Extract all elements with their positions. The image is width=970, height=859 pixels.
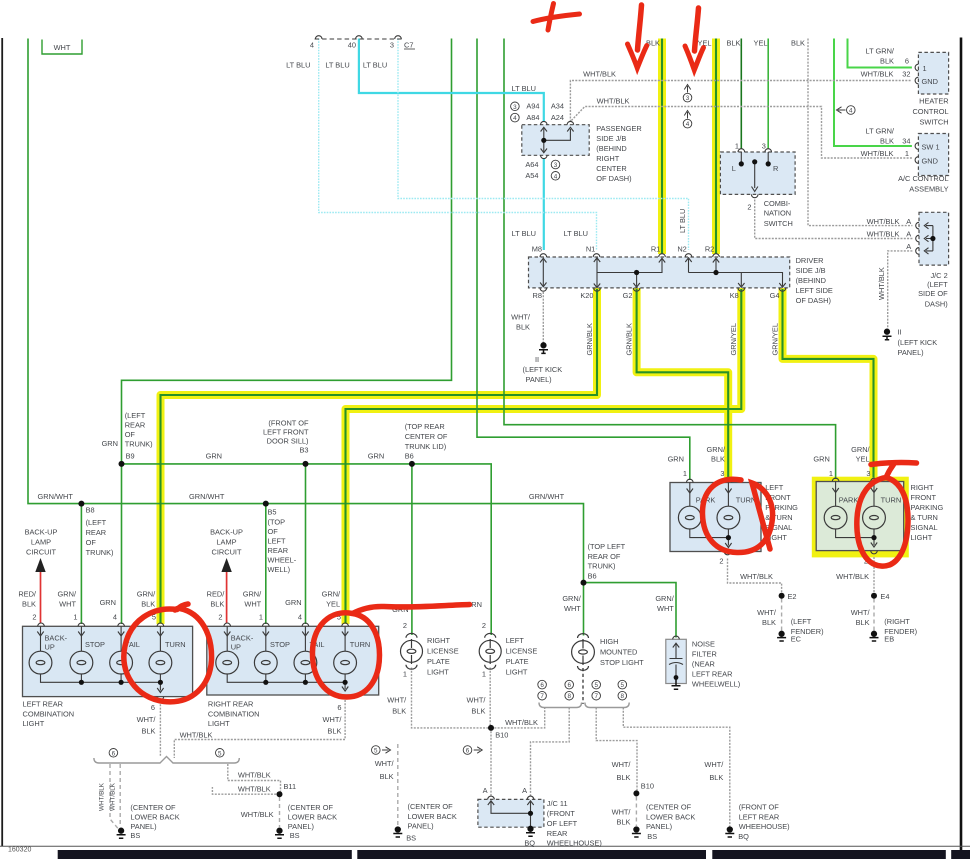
svg-text:3: 3 [866, 469, 870, 478]
svg-text:BLK: BLK [711, 455, 725, 464]
svg-text:1: 1 [482, 670, 486, 679]
svg-text:A24: A24 [551, 113, 564, 122]
svg-text:LT BLU: LT BLU [678, 209, 687, 233]
right rear TAIL bulb [294, 651, 317, 674]
combination switch pin 2 arc (bottom) [751, 194, 758, 197]
svg-text:A94: A94 [526, 102, 539, 111]
svg-text:LEFT SIDE: LEFT SIDE [796, 286, 833, 295]
svg-text:BLK: BLK [856, 618, 870, 627]
svg-text:6: 6 [540, 682, 544, 689]
left rear BACK-UP bulb [29, 651, 52, 674]
svg-text:3: 3 [762, 142, 766, 151]
svg-text:3: 3 [390, 41, 394, 50]
combination switch pin 1 arc [738, 149, 745, 152]
svg-text:OF: OF [125, 430, 136, 439]
arrowhead of left back-up circuit arrow [35, 558, 45, 572]
svg-text:(TOP LEFT: (TOP LEFT [588, 542, 626, 551]
right front TURN bulb [863, 506, 886, 529]
svg-text:5: 5 [374, 748, 378, 755]
svg-text:6: 6 [466, 748, 470, 755]
svg-text:LIGHT: LIGHT [427, 667, 449, 676]
svg-text:5: 5 [594, 682, 598, 689]
svg-text:2: 2 [719, 557, 723, 566]
right front parking internal arrows [832, 488, 877, 547]
arrowhead of right back-up circuit arrow [221, 558, 231, 572]
svg-text:CIRCUIT: CIRCUIT [26, 548, 56, 557]
red arrow 2 (right turn feed) [695, 8, 699, 51]
left front parking pin 2 arc (bottom) [724, 552, 731, 555]
driver J/B pin N2 arc [685, 254, 692, 257]
wire WHT/BLK B10 to bracket circuit 6 [491, 708, 545, 728]
svg-text:4: 4 [113, 613, 117, 622]
svg-text:COMBINATION: COMBINATION [208, 709, 260, 718]
svg-text:& TURN: & TURN [911, 513, 938, 522]
svg-text:GND: GND [922, 157, 938, 166]
svg-text:LT BLU: LT BLU [286, 61, 310, 70]
svg-text:WHT/BLK: WHT/BLK [180, 730, 213, 739]
heater control switch box [918, 52, 948, 94]
svg-text:4: 4 [849, 108, 853, 115]
svg-text:BACK-UP: BACK-UP [25, 528, 58, 537]
svg-text:BLK: BLK [327, 727, 341, 736]
svg-text:LT BLU: LT BLU [325, 61, 349, 70]
splice B6 (trunk lid) [409, 461, 415, 467]
svg-text:A54: A54 [525, 171, 538, 180]
svg-text:SIGNAL: SIGNAL [911, 523, 938, 532]
high mounted stop light dashed drop to splice brackets [582, 668, 584, 704]
noise filter internal lead and arrow [673, 643, 679, 659]
wire GRN/WHT: B5 drop to right rear STOP [265, 504, 267, 624]
svg-text:(FRONT OF: (FRONT OF [739, 803, 780, 812]
red circle around left front TURN with tail [702, 479, 772, 552]
driver J/B pin N1 arc [593, 254, 600, 257]
svg-text:B5: B5 [268, 508, 277, 517]
passenger J/B pin A64/A54 arc (bottom) [541, 155, 548, 158]
svg-text:7: 7 [594, 693, 598, 700]
svg-text:PANEL): PANEL) [898, 348, 924, 357]
svg-text:E4: E4 [880, 592, 889, 601]
left front parking pin 1 arc [687, 479, 694, 482]
left front parking internal arrows [687, 489, 732, 548]
wire BLK top feed to J/C 2 pin A [808, 39, 912, 226]
passenger J/B internal arrow down left [541, 149, 547, 153]
left front TURN bulb [717, 506, 740, 529]
high mounted stop light connector arcs [578, 634, 589, 671]
svg-text:N2: N2 [677, 245, 686, 254]
passenger J/B internal arrow up right [567, 127, 573, 131]
left rear internal leads [41, 626, 161, 690]
svg-text:TURN: TURN [350, 640, 371, 649]
svg-text:N1: N1 [586, 245, 595, 254]
svg-text:LEFT: LEFT [506, 636, 525, 645]
svg-text:A: A [906, 217, 911, 226]
svg-text:WHT/BLK: WHT/BLK [597, 97, 630, 106]
core of highlighted wire into J/B R1 [661, 39, 663, 254]
wire GRN: feed to right front PARK pin 1 [504, 39, 836, 480]
driver J/B pin R2 arc [713, 254, 720, 257]
J/C 2 internal arrows [924, 222, 928, 254]
svg-text:1: 1 [403, 670, 407, 679]
svg-text:BLK: BLK [392, 707, 406, 716]
wire WHT/BLK left license plate light to B10 [489, 668, 491, 728]
circled 7 8 7 8 row above HMSL brackets [538, 691, 547, 700]
wire WHT/BLK rear lamps splice jumper [228, 764, 281, 794]
circuit 4 left arrow and circled 4 near A/C [837, 106, 856, 115]
svg-text:SW 1: SW 1 [922, 143, 940, 152]
driver J/B internal arrows M8/R8 [540, 258, 546, 286]
svg-text:OF: OF [268, 527, 279, 536]
svg-text:WHT/: WHT/ [137, 715, 157, 724]
core of G4 GRN/YEL wire [783, 289, 874, 478]
svg-text:(TOP REAR: (TOP REAR [405, 422, 445, 431]
svg-text:B10: B10 [641, 782, 654, 791]
left license plate bulb [479, 640, 501, 662]
svg-text:WHT/: WHT/ [511, 313, 531, 322]
left rear pin 5 arc [157, 623, 164, 626]
svg-text:WHT/BLK: WHT/BLK [99, 782, 106, 811]
noise filter lower lead [675, 665, 677, 677]
svg-text:OF LEFT: OF LEFT [547, 819, 578, 828]
svg-text:8: 8 [621, 693, 625, 700]
wire GRN: top feed down to y380, left to x121.5, down through B9 to left rear TAIL [122, 39, 452, 625]
svg-text:EB: EB [884, 635, 894, 644]
left rear pin 2 arc [38, 623, 45, 626]
svg-text:LT BLU: LT BLU [564, 229, 588, 238]
splice B11 [277, 791, 283, 797]
ground BS (center of lower back panel, circuit 6) [117, 828, 126, 838]
bracket bus for rear combination lamp grounds [94, 757, 239, 764]
J/C 2 pin A arc (top) [916, 222, 919, 229]
svg-text:REAR: REAR [547, 829, 568, 838]
svg-text:SIDE J/B: SIDE J/B [796, 266, 826, 275]
svg-text:PLATE: PLATE [427, 657, 450, 666]
svg-text:TRUNK): TRUNK) [86, 548, 114, 557]
svg-text:4: 4 [686, 121, 690, 128]
right front parking pin 1 arc [832, 478, 839, 481]
svg-text:A: A [483, 786, 488, 795]
combination switch contact dot R [766, 161, 771, 166]
svg-text:(FRONT OF: (FRONT OF [268, 419, 309, 428]
svg-text:(CENTER OF: (CENTER OF [408, 802, 454, 811]
svg-text:BLK: BLK [471, 707, 485, 716]
svg-text:GRN: GRN [813, 455, 829, 464]
svg-text:2: 2 [32, 613, 36, 622]
svg-text:OF: OF [86, 538, 97, 547]
svg-text:(LEFT: (LEFT [927, 280, 948, 289]
svg-text:BQ: BQ [524, 838, 535, 847]
svg-text:1: 1 [923, 64, 927, 73]
svg-text:PANEL): PANEL) [526, 375, 552, 384]
svg-text:A: A [906, 242, 911, 251]
svg-text:YEL: YEL [326, 600, 340, 609]
highlight: left-turn feed wire into R1 [658, 39, 666, 255]
left frame border [1, 38, 3, 846]
svg-text:GRN/YEL: GRN/YEL [770, 323, 779, 355]
svg-text:BS: BS [406, 834, 416, 843]
svg-text:C7: C7 [404, 41, 413, 50]
combination switch pin 3 arc [765, 149, 772, 152]
A/C pin 34 arc [915, 143, 918, 150]
left front parking pin 3 arc [725, 479, 732, 482]
svg-text:NOISE: NOISE [692, 639, 715, 648]
svg-text:BACK-: BACK- [45, 634, 68, 643]
svg-text:WHT/BLK: WHT/BLK [110, 782, 117, 811]
svg-text:BLK: BLK [727, 39, 741, 48]
svg-text:3: 3 [554, 162, 558, 169]
svg-text:BLK: BLK [880, 57, 894, 66]
svg-text:WHT/BLK: WHT/BLK [241, 810, 274, 819]
svg-text:(LEFT: (LEFT [125, 411, 146, 420]
svg-text:A: A [522, 786, 527, 795]
ground BS (center of lower back panel, circuit 5 stub) [393, 827, 402, 837]
svg-text:UP: UP [45, 643, 55, 652]
svg-text:(CENTER OF: (CENTER OF [130, 803, 176, 812]
svg-text:3: 3 [513, 104, 517, 111]
right front parking internal leads [836, 482, 874, 546]
wire LT BLU C7-3 to driver J/B N2 [398, 39, 689, 251]
svg-text:A34: A34 [551, 102, 564, 111]
left front parking light box [670, 483, 761, 552]
circuit 3 branch arrow and circled 3 [683, 85, 692, 103]
svg-text:1: 1 [735, 142, 739, 151]
high mounted stop light lead stubs [582, 639, 584, 665]
highlight: G2 GRN/BLK wire to left front TURN [637, 288, 729, 478]
ground BQ (front of left rear wheelhouse) [725, 827, 734, 837]
svg-text:DRIVER: DRIVER [796, 256, 824, 265]
heater pin 32 arc [915, 77, 918, 84]
svg-text:(CENTER OF: (CENTER OF [646, 803, 692, 812]
svg-text:BLK: BLK [22, 600, 36, 609]
svg-text:PANEL): PANEL) [646, 822, 672, 831]
right rear pin 4 arc [302, 623, 309, 626]
wire WHT/BLK left rear combination pin 6 to splice bracket [159, 701, 161, 757]
svg-text:TURN: TURN [165, 640, 186, 649]
svg-text:FILTER: FILTER [692, 649, 717, 658]
svg-text:WHT/BLK: WHT/BLK [861, 149, 894, 158]
svg-text:DASH): DASH) [925, 299, 948, 308]
svg-text:BLK: BLK [880, 137, 894, 146]
svg-text:PARKING: PARKING [911, 503, 944, 512]
passenger side J/B box [522, 125, 589, 156]
svg-text:GND: GND [922, 77, 938, 86]
left rear TAIL bulb [110, 651, 133, 674]
ground II (left kick panel, from R8) [539, 343, 548, 354]
svg-text:LIGHT: LIGHT [911, 533, 933, 542]
svg-text:1: 1 [683, 469, 687, 478]
svg-text:NATION: NATION [764, 209, 791, 218]
splice B10 (license lights) [488, 725, 494, 731]
svg-text:WHT/: WHT/ [387, 696, 407, 705]
svg-text:RED/: RED/ [207, 590, 226, 599]
driver J/B internal arrows N1/R1/K20/G2 [594, 258, 665, 288]
svg-text:B6: B6 [588, 572, 597, 581]
svg-text:TURN: TURN [881, 495, 902, 504]
passenger J/B pin A84 arc (top) [541, 121, 548, 124]
svg-text:(BEHIND: (BEHIND [796, 276, 826, 285]
svg-text:M8: M8 [532, 245, 542, 254]
svg-text:E2: E2 [788, 592, 797, 601]
noise filter capacitor plates [669, 659, 683, 665]
driver J/B pin G4 arc [779, 288, 786, 291]
svg-text:A64: A64 [525, 160, 538, 169]
svg-text:WHT/: WHT/ [704, 760, 724, 769]
svg-text:WHT/BLK: WHT/BLK [836, 572, 869, 581]
wire WHT/BLK right front parking pin 2 to E4 [873, 557, 875, 593]
combination switch wiper arrow [752, 187, 758, 192]
svg-text:EC: EC [791, 635, 802, 644]
svg-text:WHEEL-: WHEEL- [268, 556, 297, 565]
svg-text:1: 1 [259, 613, 263, 622]
WHT stub box top left [42, 40, 82, 55]
svg-text:(LEFT: (LEFT [86, 518, 107, 527]
svg-text:GRN/YEL: GRN/YEL [729, 323, 738, 355]
right rear internal leads [227, 626, 345, 689]
connector C7 pin 40 arc [356, 36, 363, 39]
right rear combination light box [207, 626, 379, 695]
svg-text:PLATE: PLATE [506, 657, 529, 666]
svg-text:COMBI-: COMBI- [764, 199, 791, 208]
right rear TURN bulb [334, 651, 357, 674]
right front PARK bulb [824, 506, 847, 529]
svg-text:(NEAR: (NEAR [692, 659, 715, 668]
wire BLK (dark green) into combination switch pin 1 [740, 39, 742, 149]
splice B10 (lower back panel) [633, 790, 639, 796]
svg-text:4: 4 [298, 613, 302, 622]
wire LT BLU passenger J/B A64 down to driver J/B M8 [543, 159, 545, 250]
svg-text:5: 5 [621, 682, 625, 689]
lead circuit 6 to ground BS (double wire, left) [110, 764, 119, 829]
wire RED/BLK into left rear BACK-UP [40, 570, 42, 623]
splice E2 [779, 593, 785, 599]
lead E2 to ground EC [781, 599, 783, 632]
svg-text:BLK: BLK [617, 773, 631, 782]
svg-text:LIGHT: LIGHT [506, 667, 528, 676]
svg-text:LOWER BACK: LOWER BACK [646, 812, 695, 821]
svg-text:4: 4 [554, 173, 558, 180]
svg-text:REAR: REAR [268, 546, 289, 555]
svg-text:WHT: WHT [244, 600, 261, 609]
svg-text:LOWER BACK: LOWER BACK [288, 813, 337, 822]
svg-text:A/C CONTROL: A/C CONTROL [898, 174, 949, 183]
wire WHT/BLK bracket circuit 5 to splice B10 (lower back panel) [596, 708, 637, 791]
wire GRN/WHT: B6 branch to noise filter [584, 583, 677, 638]
svg-text:STOP: STOP [85, 640, 105, 649]
right rear bus splice dots [263, 680, 268, 685]
wire WHT/BLK circuit 4 to A/C GND 1 [571, 107, 912, 159]
svg-text:LT BLU: LT BLU [363, 61, 387, 70]
right rear BACK-UP bulb [216, 651, 239, 674]
driver J/B pin G2 arc [633, 288, 640, 291]
svg-text:UP: UP [231, 643, 241, 652]
svg-text:(CENTER OF: (CENTER OF [288, 803, 334, 812]
svg-text:BLK: BLK [210, 600, 224, 609]
driver J/B internal N1-R1-K20-G2 bus [597, 259, 662, 287]
svg-text:R: R [773, 164, 778, 173]
svg-text:B10: B10 [495, 730, 508, 739]
red circle around right rear TURN with tail [312, 605, 469, 698]
svg-text:COMBINATION: COMBINATION [23, 709, 75, 718]
J/C 11 internal arrow right [527, 801, 533, 805]
svg-text:BACK-: BACK- [231, 634, 254, 643]
circled 3 at passenger J/B top [511, 102, 520, 111]
svg-text:GRN/: GRN/ [137, 590, 156, 599]
svg-text:(RIGHT: (RIGHT [884, 617, 910, 626]
svg-text:REAR: REAR [86, 528, 107, 537]
svg-text:BLK: BLK [617, 818, 631, 827]
svg-text:GRN/WHT: GRN/WHT [529, 492, 565, 501]
wire GRN/WHT: B8 drop to left rear STOP [80, 504, 82, 624]
passenger J/B internal splice dot [541, 138, 546, 143]
svg-text:K20: K20 [580, 291, 593, 300]
svg-text:L: L [732, 164, 736, 173]
svg-text:CENTER OF: CENTER OF [405, 432, 448, 441]
svg-text:LT BLU: LT BLU [512, 229, 536, 238]
right front parking pin 2 arc (bottom) [871, 551, 878, 554]
svg-text:PANEL): PANEL) [408, 822, 434, 831]
driver side J/B box [529, 257, 790, 288]
lead B10 to ground BS (lower back panel) [635, 797, 637, 827]
svg-text:SWITCH: SWITCH [764, 219, 793, 228]
svg-text:YEL: YEL [856, 455, 870, 464]
svg-text:(LEFT: (LEFT [791, 617, 812, 626]
driver J/B pin R8 arc [540, 288, 547, 291]
left rear pin 1 arc [78, 623, 85, 626]
circled 4 at passenger J/B bottom [551, 172, 560, 181]
J/C 2 pin A arc (middle) [916, 235, 919, 242]
red circle around left rear TAIL/TURN [124, 604, 212, 702]
svg-text:GRN/: GRN/ [562, 594, 581, 603]
svg-text:LT GRN/: LT GRN/ [866, 127, 895, 136]
svg-text:RIGHT: RIGHT [596, 154, 619, 163]
circled 3 at passenger J/B bottom [551, 160, 560, 169]
right rear pin 2 arc [224, 623, 231, 626]
svg-text:WHT: WHT [59, 600, 76, 609]
svg-text:B6: B6 [405, 451, 414, 460]
svg-text:LOWER BACK: LOWER BACK [130, 813, 179, 822]
left rear TURN bulb [149, 651, 172, 674]
svg-text:(LEFT KICK: (LEFT KICK [898, 338, 938, 347]
core of highlighted wire into J/B R2 [715, 39, 717, 254]
svg-text:3: 3 [720, 469, 724, 478]
svg-text:DOOR SILL): DOOR SILL) [267, 437, 309, 446]
ground EB (right fender) [870, 631, 879, 641]
core of G2 GRN/BLK wire [637, 289, 729, 479]
wire GRN: B6 drop to right license plate light [411, 464, 413, 635]
svg-text:5: 5 [218, 750, 222, 757]
svg-text:GRN/BLK: GRN/BLK [585, 323, 594, 356]
circled 6 6 5 5 row above HMSL brackets [538, 680, 547, 689]
svg-text:SWITCH: SWITCH [919, 118, 948, 127]
svg-text:(FRONT: (FRONT [547, 809, 575, 818]
circled 5 at rear bracket [216, 749, 225, 758]
svg-text:WHT/BLK: WHT/BLK [861, 70, 894, 79]
wire LT BLU C7-4 to driver J/B N1 [319, 39, 597, 251]
left rear pin 4 arc [118, 623, 125, 626]
svg-text:WELL): WELL) [268, 565, 291, 574]
wire WHT/BLK splice B11 stub [212, 787, 279, 794]
svg-text:& TURN: & TURN [765, 513, 792, 522]
svg-text:LEFT: LEFT [268, 537, 287, 546]
bracket bus circuits 5/8 (right of HMSL) [585, 703, 629, 708]
svg-text:1: 1 [73, 613, 77, 622]
circuit 4 branch arrow and circled 4 [683, 111, 692, 129]
noise filter box [666, 639, 687, 683]
svg-text:LT GRN/: LT GRN/ [866, 47, 895, 56]
combination switch wiper [754, 164, 756, 189]
right rear pin 1 arc [263, 623, 270, 626]
svg-text:BLK: BLK [516, 323, 530, 332]
lead circuit 5 stub to ground BS [397, 744, 399, 826]
